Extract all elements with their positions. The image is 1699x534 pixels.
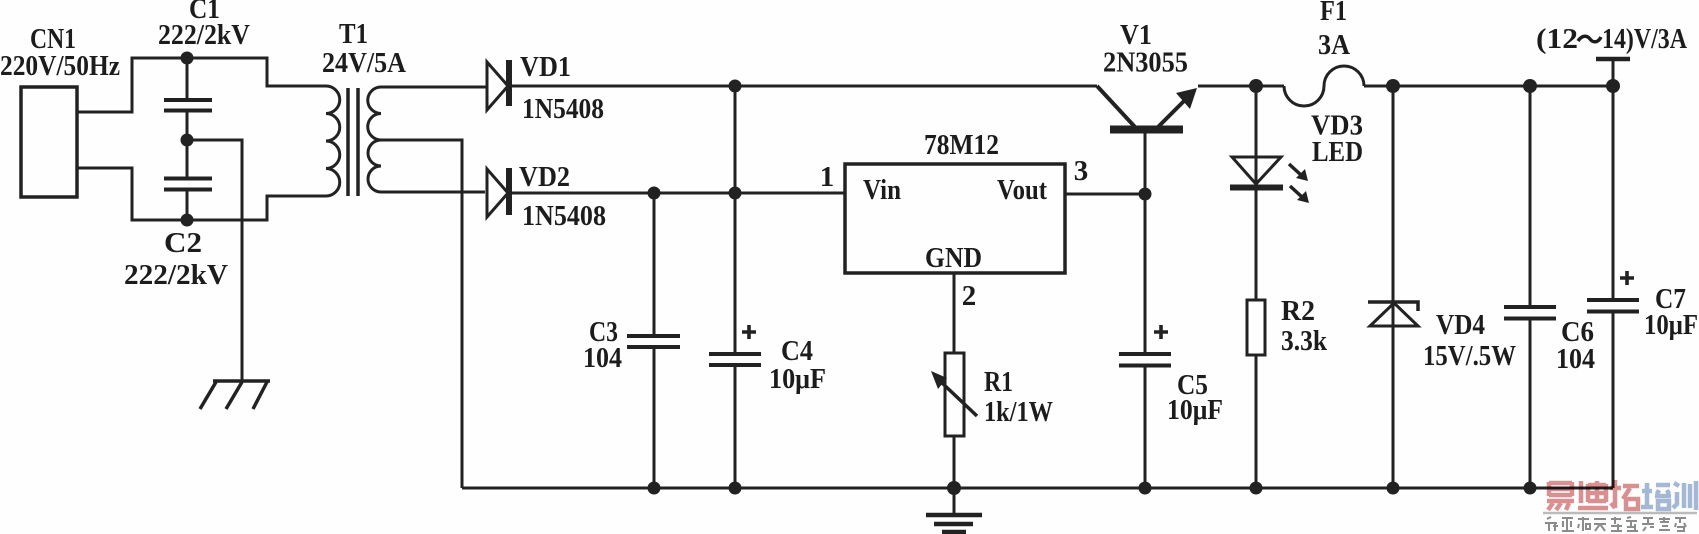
- svg-text:Vin: Vin: [863, 174, 901, 206]
- svg-text:10μF: 10μF: [1644, 309, 1698, 341]
- svg-text:T1: T1: [339, 18, 368, 50]
- svg-text:R2: R2: [1281, 295, 1315, 327]
- svg-text:LED: LED: [1312, 136, 1363, 168]
- svg-text:GND: GND: [925, 242, 982, 274]
- svg-text:(12: (12: [1536, 23, 1578, 55]
- svg-text:78M12: 78M12: [924, 129, 999, 161]
- svg-text:VD4: VD4: [1436, 309, 1485, 341]
- svg-text:24V/5A: 24V/5A: [322, 47, 406, 79]
- svg-text:10μF: 10μF: [769, 363, 826, 395]
- svg-text:VD1: VD1: [520, 51, 571, 83]
- svg-text:Vout: Vout: [997, 174, 1047, 206]
- svg-text:15V/.5W: 15V/.5W: [1423, 340, 1516, 372]
- svg-text:1N5408: 1N5408: [522, 200, 606, 232]
- svg-text:R1: R1: [984, 366, 1013, 398]
- svg-text:3: 3: [1074, 155, 1089, 187]
- svg-text:222/2kV: 222/2kV: [158, 19, 250, 51]
- svg-text:3A: 3A: [1318, 29, 1350, 61]
- svg-text:104: 104: [1556, 343, 1595, 375]
- svg-text:2: 2: [962, 280, 977, 312]
- svg-text:F1: F1: [1320, 0, 1347, 27]
- svg-text:VD2: VD2: [519, 161, 570, 193]
- svg-text:220V/50Hz: 220V/50Hz: [0, 50, 120, 82]
- svg-text:C2: C2: [164, 227, 202, 259]
- svg-text:1N5408: 1N5408: [522, 93, 604, 125]
- svg-text:222/2kV: 222/2kV: [124, 259, 228, 291]
- svg-text:10μF: 10μF: [1167, 394, 1223, 426]
- svg-text:104: 104: [583, 342, 622, 374]
- svg-text:3.3k: 3.3k: [1281, 325, 1328, 357]
- svg-text:14)V/3A: 14)V/3A: [1602, 23, 1687, 55]
- svg-text:1k/1W: 1k/1W: [984, 396, 1053, 428]
- svg-text:2N3055: 2N3055: [1103, 47, 1188, 79]
- svg-text:1: 1: [820, 161, 835, 193]
